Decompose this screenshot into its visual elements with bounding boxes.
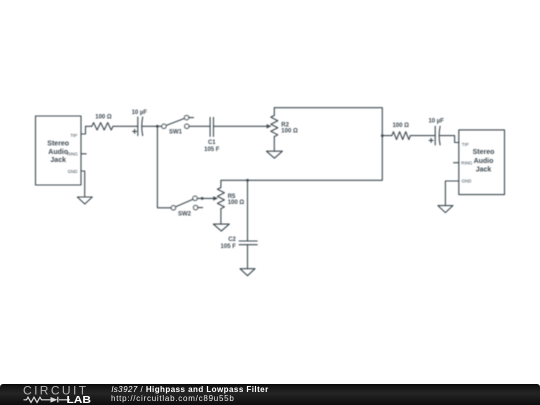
stereo audio jack J1 (left) xyxy=(36,116,82,185)
wire: output cap to right jack TIP xyxy=(440,136,459,143)
wire: SW1 throw to C1 xyxy=(189,125,210,127)
wire: R1 to input cap xyxy=(113,125,138,127)
svg-text:LAB: LAB xyxy=(67,395,92,405)
ground (below R5) xyxy=(213,224,229,231)
node B junction (R5 top / C2) xyxy=(246,179,249,182)
svg-text:Audio: Audio xyxy=(474,158,494,165)
svg-text:SW1: SW1 xyxy=(169,130,183,136)
svg-text:GND: GND xyxy=(462,179,472,184)
svg-text:105 F: 105 F xyxy=(221,244,237,250)
wire: output node down and along bottom to R5 top xyxy=(221,136,382,188)
svg-text:100 Ω: 100 Ω xyxy=(95,115,112,121)
capacitor C2 105 F xyxy=(221,237,258,250)
svg-text:C1: C1 xyxy=(208,140,216,146)
svg-text:100 Ω: 100 Ω xyxy=(228,200,245,206)
wire: input cap to node A xyxy=(142,125,157,127)
resistor R1 100 Ohm xyxy=(92,115,113,130)
svg-text:Stereo: Stereo xyxy=(473,149,495,156)
ground (below C2) xyxy=(240,269,255,276)
ground (right jack) xyxy=(438,206,453,213)
svg-text:Jack: Jack xyxy=(476,167,492,174)
capacitor 10 uF (output, polarized) xyxy=(428,118,444,145)
switch SW2 xyxy=(171,196,202,217)
capacitor 10 uF (input, polarized) xyxy=(132,110,148,136)
svg-text:TIP: TIP xyxy=(462,142,469,147)
svg-text:Audio: Audio xyxy=(48,149,68,156)
ground (below R2) xyxy=(266,151,282,158)
svg-text:100 Ω: 100 Ω xyxy=(392,123,409,129)
svg-text:RING: RING xyxy=(67,151,79,156)
svg-text:105 F: 105 F xyxy=(204,147,220,153)
svg-text:10 µF: 10 µF xyxy=(132,110,148,116)
svg-text:100 Ω: 100 Ω xyxy=(281,128,298,134)
stereo audio jack J2 (right) xyxy=(459,130,505,195)
potentiometer R5 100 Ohm xyxy=(213,188,244,225)
wire: left jack TIP to R1 xyxy=(81,126,92,134)
svg-text:RING: RING xyxy=(461,160,473,165)
CircuitLab logo xyxy=(20,384,96,405)
wire: left jack RING stub xyxy=(81,153,86,155)
footer title xyxy=(112,385,269,394)
wire: right jack GND to ground xyxy=(445,181,458,206)
wire: node A down to SW2 pole xyxy=(157,126,171,208)
svg-text:Stereo: Stereo xyxy=(47,141,69,148)
capacitor C1 105 F xyxy=(204,117,220,152)
wire: C2 to ground xyxy=(247,245,249,269)
wire: node A to SW1 pole xyxy=(157,125,161,127)
node A junction xyxy=(156,125,159,128)
wire: output node to R4 xyxy=(382,135,392,137)
switch SW1 xyxy=(162,115,194,135)
wire: R4 to output cap xyxy=(410,135,435,137)
node C junction (output node) xyxy=(381,134,384,137)
svg-text:SW2: SW2 xyxy=(178,211,192,217)
wire: right jack RING stub xyxy=(454,162,459,164)
node D junction (SW2 throw) xyxy=(201,197,204,200)
footer bar xyxy=(0,384,540,405)
potentiometer R2 100 Ohm xyxy=(267,108,298,152)
svg-text:C2: C2 xyxy=(228,237,236,243)
wire: C1 to R2 wiper xyxy=(214,125,268,127)
svg-text:10 µF: 10 µF xyxy=(428,118,444,124)
wire: node B down to C2 xyxy=(247,180,249,241)
svg-text:R2: R2 xyxy=(281,122,289,128)
footer url xyxy=(111,394,235,403)
resistor R4 100 Ohm (output) xyxy=(392,123,410,139)
svg-text:R5: R5 xyxy=(228,194,236,200)
svg-text:Jack: Jack xyxy=(50,157,66,164)
svg-text:TIP: TIP xyxy=(70,133,77,138)
ground (left jack) xyxy=(77,197,92,204)
svg-text:GND: GND xyxy=(68,169,78,174)
wire: left jack GND down xyxy=(81,171,85,197)
wire: R2 top to output node (right vertical) xyxy=(274,108,382,136)
wire: SW2 throw to R5 wiper xyxy=(197,197,213,199)
